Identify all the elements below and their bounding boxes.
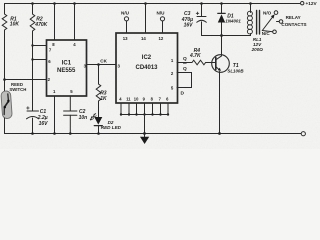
terminal bottom right (301, 132, 305, 136)
svg-text:10K: 10K (10, 22, 20, 28)
wire collector (221, 36, 223, 56)
wire pin 13 (126, 21, 128, 33)
svg-text:CONTACTS: CONTACTS (281, 22, 306, 27)
wire pin 5 to C2 (69, 96, 71, 111)
wire pin 14 (145, 4, 147, 34)
svg-text:N/O: N/O (263, 10, 272, 15)
svg-text:IC1: IC1 (62, 61, 72, 67)
svg-text:4.7K: 4.7K (189, 53, 201, 59)
wire emitter to ground (219, 72, 221, 134)
wire LED to ground (98, 126, 100, 134)
node C2 ground (69, 132, 72, 135)
svg-text:CK: CK (100, 58, 107, 63)
node D1 top (220, 2, 223, 5)
node R2 top (31, 2, 34, 5)
svg-text:12: 12 (159, 36, 164, 41)
wire R3 to LED (98, 101, 100, 117)
wire ground bus (121, 114, 168, 116)
terminal N/U pin13 (124, 17, 128, 21)
node stub6 (31, 58, 33, 60)
node C1 ground (31, 132, 34, 135)
svg-text:470K: 470K (34, 22, 47, 28)
reed switch S1 (1, 91, 12, 119)
terminal +12V (301, 2, 304, 5)
node IC2 ground (143, 132, 146, 135)
svg-text:CD4013: CD4013 (136, 65, 159, 71)
wire IC2 bottom pin stubs (121, 103, 168, 115)
node bus junctions (120, 113, 169, 115)
wire bottom ground rail (5, 133, 302, 135)
resistor R2 (30, 14, 35, 31)
wire Q-bar pin2 to D pin5 loop (177, 73, 192, 88)
svg-text:1K: 1K (100, 96, 107, 102)
svg-text:11: 11 (126, 97, 131, 102)
paper background (0, 0, 320, 149)
svg-text:10: 10 (134, 97, 139, 102)
wire pin 1 to ground (54, 96, 56, 134)
wire top supply rail (5, 3, 300, 5)
resistor R3 (96, 84, 101, 101)
wire reed node to pin 2 (5, 79, 47, 81)
svg-text:Q: Q (183, 56, 187, 62)
wire pin 8 (54, 4, 56, 41)
transistor T1 (212, 55, 230, 73)
node emitter ground (218, 132, 221, 135)
svg-text:N/U: N/U (157, 11, 166, 16)
svg-text:14: 14 (141, 36, 146, 41)
capacitor C1 (27, 107, 39, 134)
svg-text:200Ω: 200Ω (251, 47, 264, 52)
svg-text:D: D (181, 91, 185, 97)
wire collector node horizontal (202, 35, 251, 37)
wire 555 pin3 output to IC2 pin3 (87, 64, 117, 66)
svg-text:N/C: N/C (262, 31, 271, 36)
node pin14 top (144, 2, 147, 5)
IC U2 CD4013 box (116, 33, 178, 103)
svg-text:16V: 16V (184, 23, 194, 29)
node stub7 (31, 44, 33, 46)
wire stub to pin 7 (33, 45, 47, 47)
diode D1 (218, 4, 225, 36)
wire left vertical bottom (4, 118, 6, 134)
wire Q pin1 to R4 (177, 62, 192, 64)
svg-text:RED LED: RED LED (101, 125, 122, 130)
relay core (257, 11, 260, 35)
terminal N/U pin12 (160, 17, 164, 21)
wire pin 12 (162, 21, 164, 33)
svg-text:Q: Q (183, 66, 187, 72)
svg-text:16V: 16V (39, 121, 49, 127)
op-amp IC1 NE555 box (47, 40, 87, 96)
node trigger junction (3, 78, 6, 81)
svg-text:N/U: N/U (121, 11, 130, 16)
resistor R1 (2, 14, 7, 30)
node 555 pin8 top (53, 2, 56, 5)
wire R3 top lead (98, 65, 100, 85)
capacitor C3 (196, 4, 206, 36)
svg-text:NE555: NE555 (57, 68, 76, 74)
wire left vertical mid (4, 30, 6, 91)
svg-text:+12V: +12V (306, 1, 318, 6)
svg-text:SL100B: SL100B (227, 69, 244, 74)
wire pin 4 (74, 4, 76, 41)
wire R2 bottom to C1 (32, 31, 34, 111)
ground symbol (140, 134, 149, 145)
LED D2 (90, 113, 102, 125)
wire R2 top lead (32, 4, 34, 15)
node collector junction (220, 34, 223, 37)
wire left vertical top (4, 4, 6, 15)
svg-text:10n: 10n (79, 115, 88, 121)
svg-text:IC2: IC2 (142, 55, 152, 61)
relay contacts (262, 11, 283, 34)
node 555 pin4 top (73, 2, 76, 5)
node LED ground (97, 132, 100, 135)
wire bus to ground rail (144, 115, 146, 134)
node CK branch (97, 63, 100, 66)
node coil top (249, 2, 252, 5)
wire R4 to base (206, 62, 216, 64)
relay RL1 coil (247, 4, 252, 36)
svg-text:13: 13 (123, 36, 128, 41)
resistor R4 (192, 60, 206, 65)
node pin1 ground (53, 132, 56, 135)
capacitor C2 (64, 111, 77, 134)
svg-text:SWITCH: SWITCH (9, 87, 26, 92)
node C3 top (200, 2, 203, 5)
svg-text:1N4001: 1N4001 (225, 19, 241, 24)
svg-text:RELAY: RELAY (286, 15, 301, 20)
wire stub to pin 6 (33, 59, 47, 61)
